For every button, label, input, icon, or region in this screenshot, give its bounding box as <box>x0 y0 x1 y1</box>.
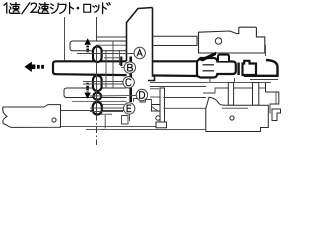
glyph ロ <box>84 4 91 12</box>
interlock pin D (small third) <box>93 93 101 100</box>
glyph ・ <box>77 7 80 10</box>
upper body block with hole <box>199 27 265 53</box>
label circle B <box>124 62 135 73</box>
stay bar foot <box>156 122 167 128</box>
glyph 1 <box>4 3 7 13</box>
far right edge line <box>269 105 271 114</box>
tall block top-left diagonal edge <box>127 8 153 62</box>
glyph フ <box>59 4 66 13</box>
line from E down <box>129 114 131 121</box>
leader line to A <box>77 53 134 55</box>
glyph ／ <box>22 3 30 14</box>
step connector right of E <box>140 100 152 105</box>
interlock pin A (top) <box>93 47 102 63</box>
support leg 2 <box>253 83 259 106</box>
line pair near E <box>102 104 124 106</box>
small bracket right of E <box>134 99 141 103</box>
bold wedge under body block <box>199 52 217 62</box>
big bracket hole <box>230 116 234 120</box>
bold boss stub <box>120 57 122 67</box>
label circle E <box>124 103 135 114</box>
label circle A <box>134 47 145 58</box>
thin boss edge <box>118 50 120 65</box>
interlock pin E (bottom) <box>93 102 102 115</box>
bold hook right end <box>244 60 278 76</box>
diagonal brace to stay bar <box>152 107 159 112</box>
stay hole <box>156 116 160 120</box>
boss lower edge <box>104 57 119 59</box>
body block hole <box>215 38 221 44</box>
centre dash-dot line bottom <box>96 115 98 146</box>
flange lower edge segments <box>203 88 228 93</box>
short connectors under bold cluster <box>209 78 211 82</box>
clevis inner slot <box>203 64 215 66</box>
leader lines to C <box>83 81 123 83</box>
interlock pin C (second) <box>93 76 102 92</box>
glyph ッ <box>93 5 99 12</box>
bold tab block <box>243 61 257 75</box>
vertical stay bar <box>160 88 165 122</box>
fork arm rail mid stub <box>101 113 112 115</box>
label circle C <box>123 77 134 88</box>
thin line under hook <box>250 79 278 81</box>
glyph 速 (second) <box>38 3 49 14</box>
bold left arrow (rod motion) <box>25 62 32 72</box>
rod 1 mid line <box>96 44 127 46</box>
glyph ト <box>70 3 74 14</box>
glyph 2 <box>31 3 37 12</box>
thin lines under right cluster <box>150 81 271 83</box>
rod 1 right segment <box>154 36 198 45</box>
bottom-left shift fork arm head <box>3 105 61 128</box>
leader line from title to pin column <box>96 17 98 46</box>
line below rod 3 <box>72 101 150 103</box>
title text: 1速／2速シフト・ロッド drawn as glyph strokes <box>4 3 110 14</box>
bracket under E <box>122 116 129 125</box>
shift rod 3 (bottom rod) <box>64 88 150 98</box>
rod 2 clevis right end flare <box>197 58 236 78</box>
bold bar right of clevis <box>237 63 239 76</box>
glyph ド <box>103 3 111 14</box>
leader lines to E <box>90 107 124 109</box>
thin vertical above hook <box>265 45 267 56</box>
fork arm rail lower line <box>61 126 160 128</box>
fork arm rail top line <box>61 110 142 112</box>
leader line to B <box>121 67 124 69</box>
rail lines <box>164 97 207 99</box>
right flange bracket <box>266 83 279 105</box>
shift rod 2 (bold 1-2 rod) left section <box>53 61 198 76</box>
vertical fork boss edge lines <box>105 50 107 88</box>
bottom big bracket <box>206 97 268 131</box>
support leg 1 <box>228 83 233 106</box>
tall block right edge <box>148 8 155 81</box>
small dark cap on clevis <box>218 55 229 61</box>
big bracket lip line <box>222 107 248 109</box>
bold fork boss edge <box>129 57 132 103</box>
glyph 速 <box>9 3 20 14</box>
leader line to D <box>90 95 136 98</box>
label circle D <box>136 89 147 100</box>
housing line above rod1 <box>97 36 127 38</box>
fork arm hole <box>52 118 56 122</box>
leader line from title to rod 1 <box>64 17 66 63</box>
shift rod 1 (top rod) <box>70 41 127 51</box>
centre line through pins <box>96 46 98 114</box>
down arrow (pin motion) <box>86 83 89 92</box>
fork boss white block (tall block) <box>127 8 153 112</box>
far right bottom bracket <box>272 109 281 121</box>
arm boss vertical <box>104 115 106 129</box>
up arrow (pin motion) <box>84 38 91 45</box>
stay tab <box>152 105 161 112</box>
glyph シ <box>50 3 58 13</box>
